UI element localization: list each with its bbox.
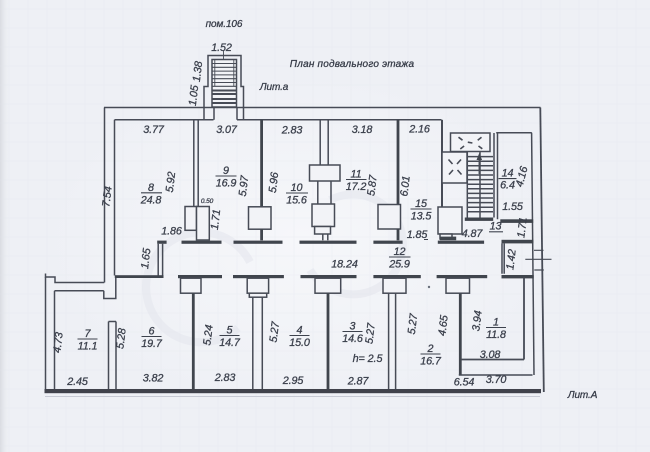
svg-text:1.42: 1.42 <box>504 249 518 271</box>
svg-text:13: 13 <box>490 221 502 233</box>
svg-text:4.73: 4.73 <box>51 332 65 354</box>
svg-text:2.83: 2.83 <box>214 372 236 384</box>
corridor top wall segment room10 T <box>300 241 357 244</box>
room 14 fraction <box>499 168 517 192</box>
svg-text:1.55: 1.55 <box>502 201 524 213</box>
partition 3|2 double wall <box>389 293 396 389</box>
svg-text:3.77: 3.77 <box>143 124 165 136</box>
annex room7 top outer wall stepped corner <box>46 274 105 283</box>
wall segment 4.87 <box>440 237 456 241</box>
svg-text:16.7: 16.7 <box>420 356 442 368</box>
svg-text:7.54: 7.54 <box>100 186 114 208</box>
corridor bottom wall segment 3|2 <box>373 275 420 278</box>
room 6 fraction <box>141 326 163 351</box>
svg-text:3.94: 3.94 <box>470 310 484 332</box>
partition 4|3 thick wall <box>327 293 330 389</box>
svg-text:11: 11 <box>350 169 361 181</box>
pier box 15 <box>438 207 462 234</box>
svg-text:3: 3 <box>350 321 356 333</box>
stair entry treads <box>212 64 237 87</box>
svg-text:16.9: 16.9 <box>216 178 237 190</box>
wire inner right wall line <box>532 133 534 375</box>
dimension leader outside right wall <box>525 258 551 260</box>
annex left inner line <box>54 291 56 389</box>
svg-text:2.95: 2.95 <box>282 375 305 387</box>
svg-text:4.87: 4.87 <box>462 228 484 240</box>
pier 5|4 step <box>249 293 266 297</box>
room 9 fraction <box>216 165 237 190</box>
room 1 bottom wall <box>461 359 524 361</box>
svg-text:5.96: 5.96 <box>267 172 281 194</box>
svg-text:8: 8 <box>148 182 154 194</box>
partition 11|15 pier box <box>378 205 401 230</box>
room 2 fraction <box>420 343 442 368</box>
svg-text:1.71: 1.71 <box>209 209 223 231</box>
stair door jambs in top wall <box>214 108 237 120</box>
svg-text:3.18: 3.18 <box>352 124 373 136</box>
annex left outer wall <box>45 277 47 392</box>
vestibule bottom wall <box>115 275 164 278</box>
room 5 fraction <box>219 325 241 350</box>
svg-text:17.2: 17.2 <box>346 181 367 193</box>
cell 1.42 bottom bar <box>502 275 534 278</box>
svg-text:3.70: 3.70 <box>486 374 507 386</box>
svg-text:1: 1 <box>493 317 499 329</box>
bottom outer wall band <box>45 389 542 393</box>
staircase treads <box>467 157 493 212</box>
svg-text:4: 4 <box>297 325 303 337</box>
corridor top wall: vestibule cap <box>157 241 166 244</box>
svg-text:5.28: 5.28 <box>114 328 128 350</box>
svg-text:1.52: 1.52 <box>211 42 232 54</box>
svg-text:5.92: 5.92 <box>164 171 178 193</box>
room 15 fraction <box>411 198 433 223</box>
partition 8|9 double wall <box>194 120 198 207</box>
stair entry outer outline <box>204 56 244 120</box>
stair entry inner box <box>212 60 237 108</box>
wire inner left wall line <box>114 120 116 276</box>
corridor bottom wall segment 5|4 <box>233 275 284 278</box>
svg-text:3.07: 3.07 <box>216 124 238 136</box>
partition 10|11 middle double wall <box>318 181 331 204</box>
svg-text:3.08: 3.08 <box>480 349 501 361</box>
svg-text:6: 6 <box>149 326 155 338</box>
room 14 top wall <box>496 132 532 134</box>
stair entry lower treads <box>212 91 237 104</box>
partition 7|6 double wall <box>109 322 117 390</box>
corridor top wall segment room9 T <box>234 241 283 244</box>
svg-text:Лит.А: Лит.А <box>567 390 598 401</box>
partition 11|15 lower stem <box>397 229 400 240</box>
svg-text:15: 15 <box>415 198 428 210</box>
svg-text:2.83: 2.83 <box>281 125 303 137</box>
room 4 fraction <box>289 325 310 350</box>
svg-text:15.0: 15.0 <box>289 337 310 349</box>
svg-text:6.01: 6.01 <box>398 175 412 197</box>
svg-text:13.5: 13.5 <box>411 211 433 223</box>
faint scan line under bottom wall <box>45 396 540 398</box>
partition 6|5 thick wall <box>192 293 195 389</box>
partition 8|9 pier box right <box>197 207 210 241</box>
stair entry inner rails <box>215 60 234 87</box>
partition 10|11 lower neck <box>315 227 331 235</box>
svg-text:План подвального этажа: План подвального этажа <box>290 59 415 70</box>
svg-text:3.82: 3.82 <box>143 373 164 385</box>
pier 2|1 box <box>446 278 470 293</box>
svg-text:5.24: 5.24 <box>201 324 215 346</box>
room 10 fraction <box>286 182 308 207</box>
partition 10|11 upper double wall <box>320 120 328 165</box>
pier 3|2 box <box>383 278 406 293</box>
corridor top wall segment stair side <box>438 241 484 244</box>
svg-text:14.7: 14.7 <box>219 337 241 349</box>
vestibule divider wall 1.65 <box>158 244 162 276</box>
partition 9|10 pier box <box>249 207 272 229</box>
room 2.16 right wall <box>441 120 443 207</box>
pier 5|4 box <box>247 278 268 293</box>
svg-text:18.24: 18.24 <box>331 259 358 271</box>
svg-text:пом.106: пом.106 <box>206 19 243 30</box>
wall under room 14 <box>500 219 533 223</box>
pier 4|3 box <box>315 278 341 293</box>
svg-text:11.1: 11.1 <box>78 341 98 353</box>
partition 10|11 lower box <box>312 204 335 227</box>
pier box 15 step <box>440 234 452 239</box>
inner bottom line rooms 2/1 <box>459 374 533 376</box>
room 7 fraction <box>78 328 98 353</box>
svg-text:2.87: 2.87 <box>347 376 370 388</box>
watermark arcs <box>146 194 403 342</box>
partition 10|11 stem <box>323 234 328 240</box>
svg-text:25.9: 25.9 <box>388 259 410 271</box>
svg-text:2.16: 2.16 <box>408 124 430 136</box>
staircase rails <box>467 133 497 220</box>
room 8 fraction <box>140 182 162 206</box>
scan dot <box>428 286 430 288</box>
cell 1.42 left wall <box>502 243 504 273</box>
wire inner top wall line <box>115 119 442 121</box>
svg-text:11.8: 11.8 <box>486 329 506 341</box>
wire outer top wall <box>104 107 541 109</box>
cell 1.42 top bar <box>502 240 534 244</box>
svg-text:1.86: 1.86 <box>161 226 182 238</box>
svg-text:9: 9 <box>223 165 229 177</box>
corridor bottom wall segment room6 <box>178 275 222 278</box>
svg-text:Лит.а: Лит.а <box>259 82 289 93</box>
partition 2|1 thick wall <box>459 293 462 375</box>
room 11 fraction <box>346 169 367 194</box>
svg-text:19.7: 19.7 <box>141 338 163 350</box>
room 1 right wall <box>523 277 525 359</box>
svg-text:14: 14 <box>502 168 514 180</box>
svg-text:2.45: 2.45 <box>66 376 89 388</box>
svg-text:1.38: 1.38 <box>191 61 205 83</box>
svg-text:h= 2.5: h= 2.5 <box>353 353 384 365</box>
corridor top wall segment room11 T <box>373 241 402 244</box>
svg-text:12: 12 <box>394 246 406 258</box>
partition 11|15 thick wall <box>397 120 400 205</box>
corridor top wall segment room8 T <box>182 241 222 244</box>
svg-text:6.54: 6.54 <box>454 377 475 389</box>
corridor bottom wall segment 2|1 <box>437 275 488 278</box>
svg-text:10: 10 <box>291 182 303 194</box>
svg-text:14.6: 14.6 <box>342 333 363 345</box>
corridor bottom wall segment 4|3 <box>301 275 357 278</box>
svg-text:1.71: 1.71 <box>515 217 529 239</box>
vent shaft A hatched box <box>451 133 491 152</box>
room 3 fraction <box>342 321 363 346</box>
svg-text:2: 2 <box>427 343 434 355</box>
pier 6|5 box <box>181 278 202 293</box>
vent shaft B hatched box <box>442 152 467 183</box>
room 12 fraction <box>388 246 410 271</box>
staircase bottom bar <box>465 218 493 221</box>
svg-text:15.6: 15.6 <box>286 195 307 207</box>
staircase center divider <box>479 152 481 218</box>
partition 5|4 double wall <box>253 297 262 389</box>
partition 9|10 lower stem <box>260 229 263 240</box>
partition 8|9 pier box left <box>185 207 197 231</box>
staircase up arrow <box>478 158 480 174</box>
svg-text:0.50: 0.50 <box>201 198 214 205</box>
annex top inner line <box>55 290 104 292</box>
svg-text:24.8: 24.8 <box>140 194 162 206</box>
partition 9|10 thick wall <box>260 120 263 207</box>
partition 10|11 upper box <box>310 165 341 181</box>
label 13 underlined <box>489 221 503 233</box>
dim line 1.52 <box>223 51 225 60</box>
room 1 fraction <box>486 317 506 342</box>
wire outer right wall <box>540 108 544 393</box>
wire outer left wall <box>104 108 106 283</box>
partition 7|6 door stub <box>104 278 116 299</box>
